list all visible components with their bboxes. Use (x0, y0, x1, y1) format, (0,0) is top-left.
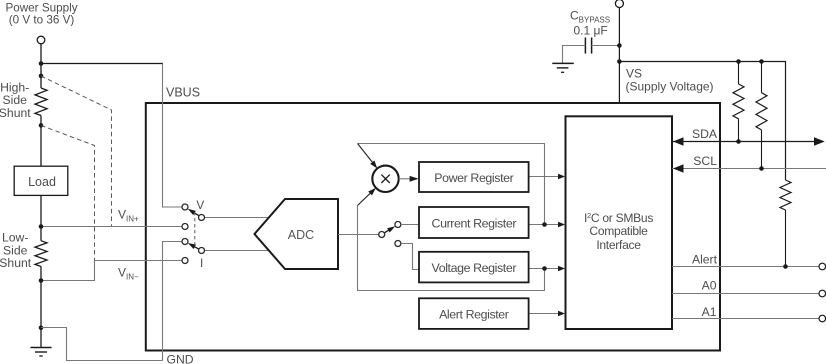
svg-text:Alert: Alert (692, 252, 718, 266)
arrowhead Voltage Register to interface (558, 266, 565, 272)
switch SW2 arm (188, 243, 199, 249)
svg-text:SCL: SCL (693, 154, 717, 168)
wire SCL (672, 168, 826, 170)
switch contact: to current register (395, 222, 401, 228)
terminal: Alert (819, 263, 826, 270)
node: ground junction (39, 326, 44, 331)
wire VIN- : low-side shunt bottom to switch throw (41, 261, 182, 281)
wire: supply terminal to top node (40, 44, 42, 64)
wire VIN+ : low-side shunt top to switch throw (41, 226, 182, 228)
wire: switch to Voltage Register (401, 244, 420, 270)
wire: high-side shunt bottom (40, 116, 42, 126)
node: supply top junction (39, 61, 44, 66)
svg-text:A1: A1 (702, 305, 717, 319)
terminal: power supply (37, 36, 45, 44)
wire: load to low-side shunt (40, 195, 42, 226)
node: VS rail junction (617, 59, 622, 64)
arrowhead into Power Register (410, 176, 419, 182)
wire: into low-side shunt (40, 227, 42, 241)
switch common: bottom ADC input (199, 248, 205, 254)
wire: low-side shunt bottom (40, 267, 42, 281)
switch contact: ADC output node (379, 232, 385, 238)
svg-text:(Supply Voltage): (Supply Voltage) (626, 80, 714, 94)
wire: voltage feedback to multiplier (bottom) (358, 206, 545, 291)
node: SDA pull-up junction (736, 139, 741, 144)
wire: switch to Current Register (401, 224, 420, 226)
multiplier U2 (372, 166, 398, 192)
ground symbol (left) (31, 348, 52, 357)
wire: ADC output (338, 234, 379, 236)
node: high-side shunt top junction (39, 74, 44, 79)
svg-text:VS: VS (626, 67, 642, 81)
arrowhead Power Register to interface (558, 174, 565, 180)
svg-text:SDA: SDA (692, 127, 718, 141)
block: Voltage Register (419, 252, 529, 283)
svg-text:Power Register: Power Register (434, 171, 513, 185)
svg-text:Current Register: Current Register (432, 216, 517, 230)
ground symbol (bypass cap) (552, 63, 574, 72)
wire: Power Register output (529, 176, 559, 178)
block: Power Register (419, 162, 529, 192)
wire: VS pull-up rail (619, 62, 785, 181)
svg-text:ADC: ADC (288, 228, 314, 242)
label Low-Side Shunt (0, 231, 32, 270)
resistor: low-side shunt (35, 241, 47, 267)
wire A1 (672, 318, 819, 320)
svg-text:GND: GND (167, 352, 194, 364)
resistor: Alert pull-up (780, 180, 791, 267)
svg-text:Shunt: Shunt (0, 106, 31, 120)
svg-text:Alert Register: Alert Register (439, 307, 509, 321)
node: low-side shunt bottom junction (39, 278, 44, 283)
node: SCL pull-up junction (759, 166, 764, 171)
load box (14, 166, 68, 195)
terminal: A0 (819, 290, 826, 297)
switch SW1 arm (V position) (188, 209, 199, 216)
IC outer boundary box (146, 103, 720, 351)
capacitor CBYPASS plates (585, 38, 591, 54)
dashed wire: high-side shunt top to VIN+ (41, 76, 112, 227)
switch contact: VBUS throw (182, 204, 188, 210)
wire: shunt to load (40, 125, 42, 166)
resistor: high-side shunt (35, 88, 47, 115)
dashed gang link between switch arms (194, 212, 196, 246)
svg-text:0.1 μF: 0.1 μF (574, 24, 608, 38)
wire: top switch common to ADC (205, 217, 272, 219)
switch contact: VIN- throw (182, 258, 188, 264)
wire: top node to VBUS corner (41, 63, 163, 65)
wire: multiplier output to Power Register (399, 178, 411, 180)
wire GND: pin riser to switch throw (163, 242, 182, 361)
label I2C or SMBus Compatible Interface (584, 211, 653, 252)
arrowhead SDA into interface (673, 137, 684, 145)
resistor: SCL pull-up (756, 62, 767, 169)
svg-text:Shunt: Shunt (0, 256, 32, 270)
wire VBUS: vertical drop and into V switch throw (163, 64, 182, 208)
label High-Side Shunt (0, 80, 31, 119)
switch common: top ADC input (199, 215, 205, 221)
op block ADC (255, 199, 339, 269)
svg-text:Voltage Register: Voltage Register (432, 261, 517, 275)
wire: shunt bottom to ground node (40, 281, 42, 328)
resistor: SDA pull-up (733, 62, 744, 142)
wire: Voltage Register output (529, 268, 559, 270)
svg-text:A0: A0 (702, 279, 717, 293)
multiplier x symbol (381, 175, 389, 183)
svg-text:(0 V to 36 V): (0 V to 36 V) (9, 14, 75, 27)
node: SDA pull-up top (736, 59, 741, 64)
wire: current feedback to multiplier (top) (358, 144, 545, 225)
node: high-side shunt bottom junction (39, 123, 44, 128)
wire: bottom switch common to ADC (205, 250, 272, 252)
svg-text:Compatible: Compatible (589, 224, 648, 238)
wire: Current Register output (529, 224, 559, 226)
arrowhead SCL into interface (673, 164, 684, 172)
arrowhead Alert Register to interface (558, 311, 565, 317)
svg-text:Interface: Interface (596, 238, 641, 252)
node: current feedback tap (542, 222, 547, 227)
wire: capacitor to ground (563, 46, 586, 64)
block: Current Register (419, 207, 529, 238)
wire: capacitor to VS line (592, 45, 620, 47)
wire SDA (672, 141, 822, 143)
label Power Supply (5, 2, 77, 27)
wire Alert (672, 266, 819, 268)
label VS (Supply Voltage) (626, 67, 714, 94)
svg-text:Load: Load (28, 175, 56, 189)
node: low-side shunt top junction (39, 224, 44, 229)
wire A0 (672, 293, 819, 295)
arrowhead into multiplier lower-left (368, 188, 376, 196)
switch SW3 arm (ADC output select) (384, 226, 395, 233)
arrowhead into multiplier upper-left (370, 161, 377, 169)
terminal: A1 (819, 315, 826, 322)
switch contact: to voltage register (395, 241, 401, 247)
node: SCL pull-up top (759, 59, 764, 64)
arrowhead SDA off-page right (814, 137, 825, 145)
block: I2C or SMBus Compatible Interface (566, 116, 673, 329)
node: cap tap on VS line (617, 43, 622, 48)
block: Alert Register (419, 298, 529, 329)
arrowhead Current Register to interface (558, 222, 565, 228)
wire: node to high-side shunt (40, 63, 42, 88)
wire: ground junction to GND pin rail (41, 328, 163, 361)
node: Alert pull-up junction (783, 264, 788, 269)
svg-text:I2C or SMBus: I2C or SMBus (584, 211, 653, 225)
switch contact: GND throw (182, 239, 188, 245)
svg-text:V: V (196, 198, 204, 212)
svg-text:VBUS: VBUS (166, 86, 200, 100)
wire: Alert Register output (529, 313, 559, 315)
terminal: VS supply (615, 0, 623, 8)
wire: VS terminal down to IC (618, 8, 620, 104)
switch contact: VIN+ throw (182, 224, 188, 230)
wire: ground junction down to ground symbol (40, 328, 42, 348)
svg-text:I: I (200, 256, 203, 270)
dashed wire: high-side shunt bottom to VIN- (41, 125, 95, 260)
node: voltage feedback tap (542, 266, 547, 271)
